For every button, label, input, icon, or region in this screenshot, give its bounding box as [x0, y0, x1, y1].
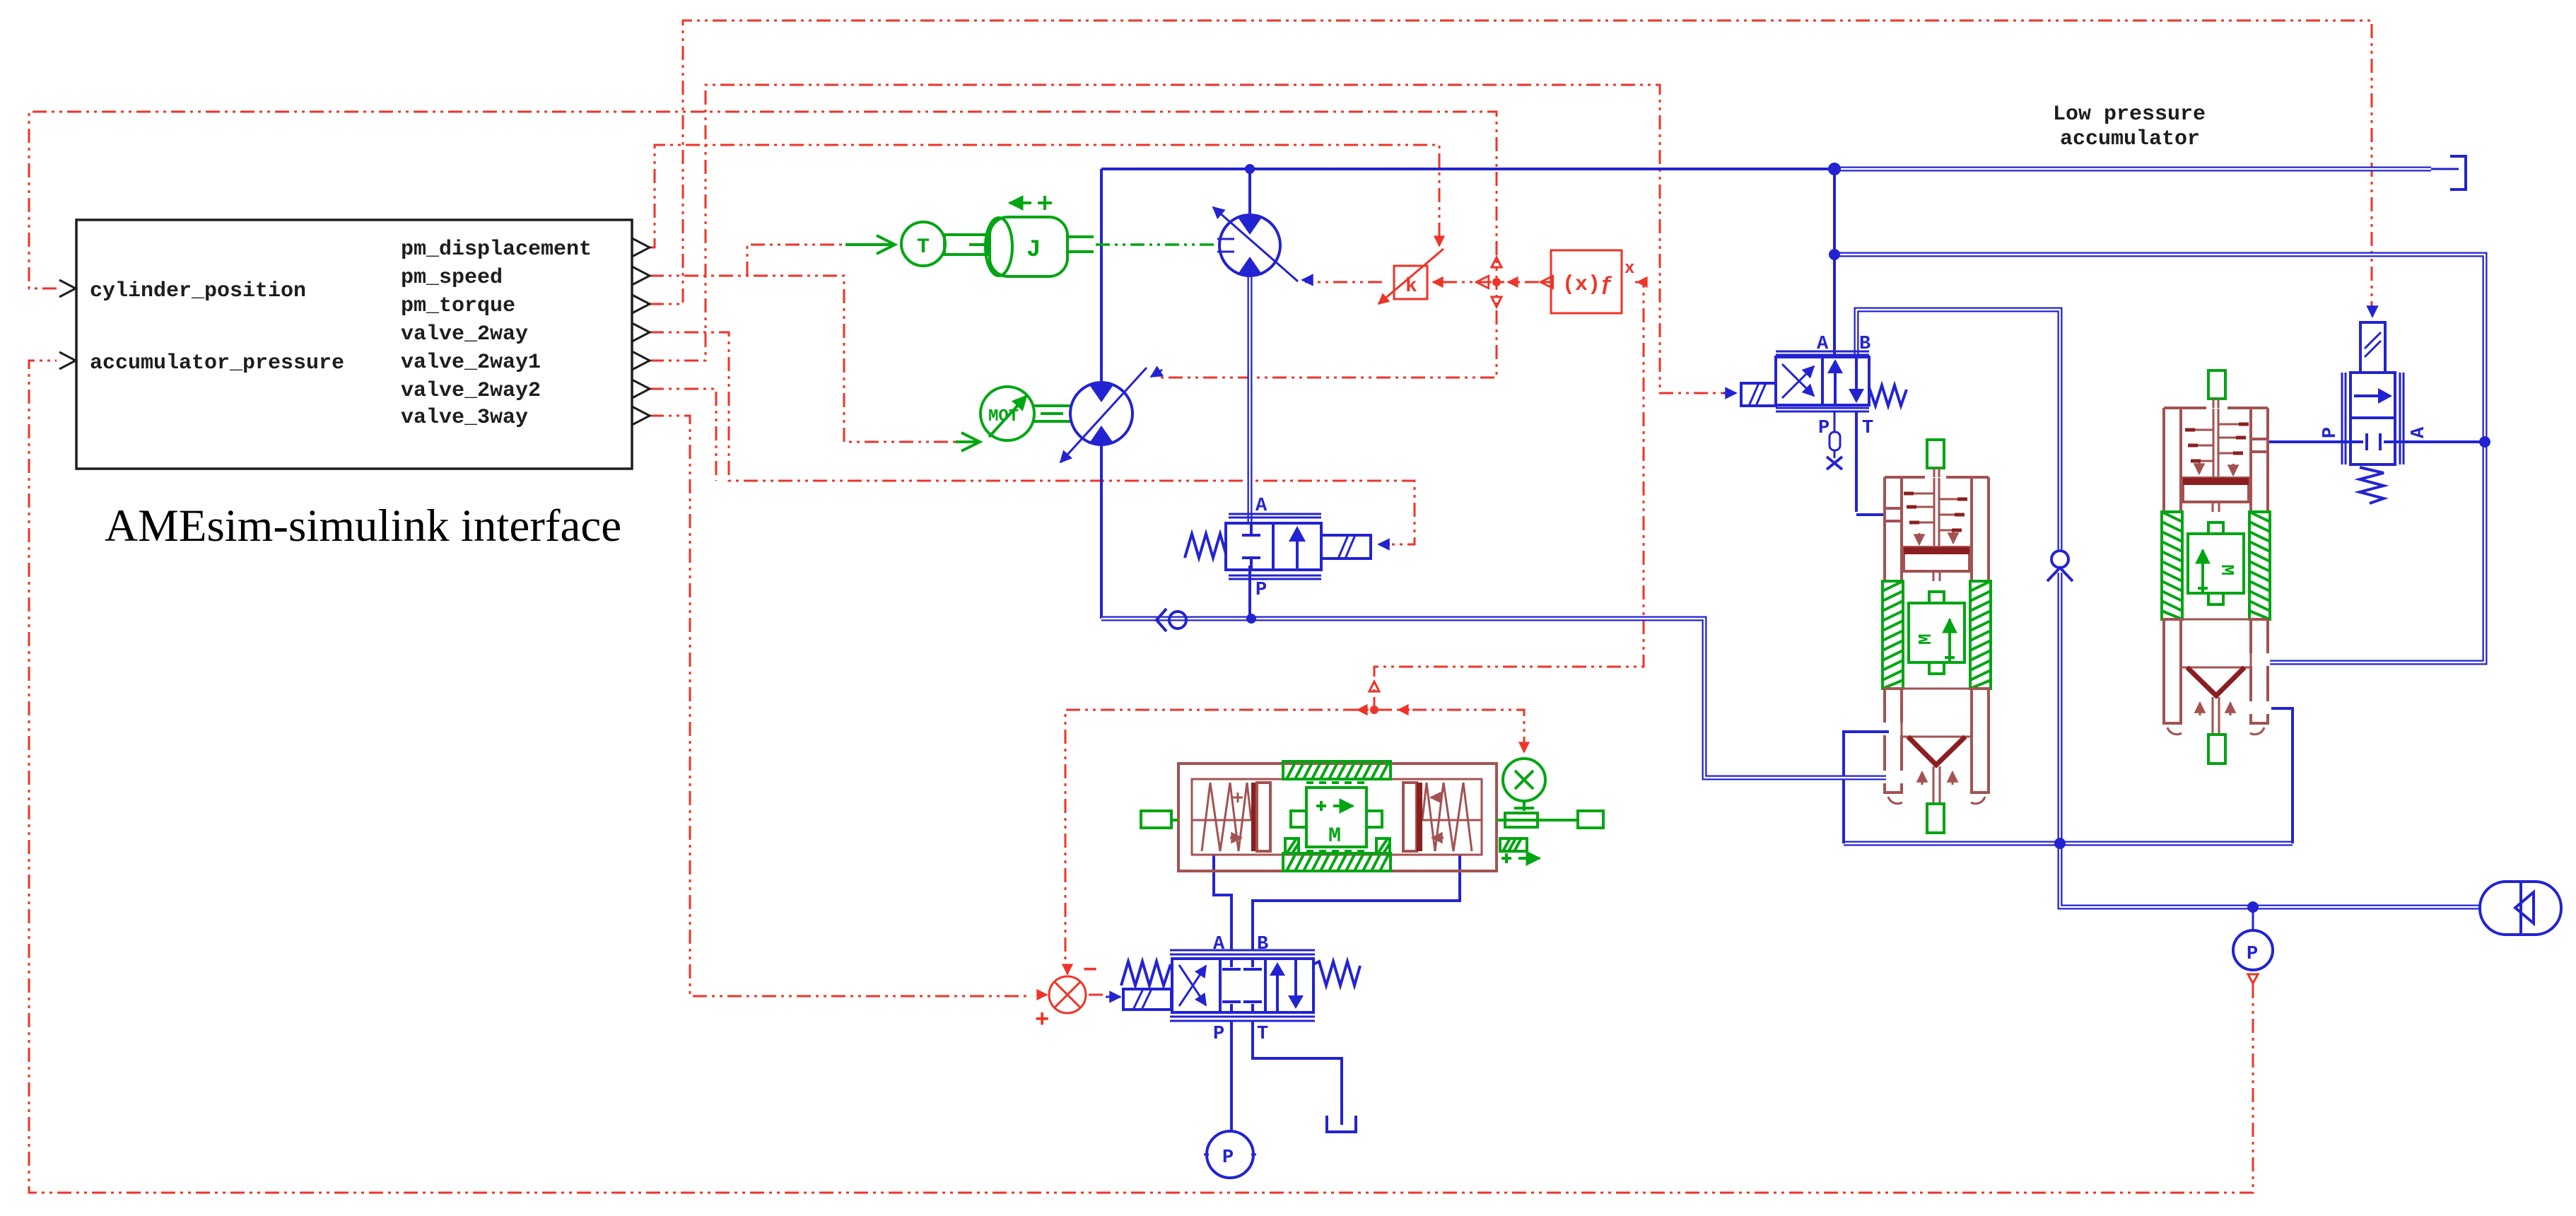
svg-text:valve_2way2: valve_2way2: [401, 379, 541, 403]
svg-text:valve_2way: valve_2way: [401, 322, 528, 346]
svg-text:pm_torque: pm_torque: [401, 294, 515, 318]
svg-text:−: −: [1083, 958, 1097, 985]
svg-text:B: B: [1859, 334, 1870, 355]
svg-text:valve_3way: valve_3way: [401, 406, 528, 430]
svg-text:P: P: [1255, 580, 1267, 601]
svg-text:P: P: [2320, 427, 2341, 438]
svg-text:J: J: [1026, 237, 1041, 264]
svg-text:pm_speed: pm_speed: [401, 266, 503, 290]
svg-text:P: P: [1213, 1024, 1224, 1045]
svg-text:Low pressure: Low pressure: [2053, 103, 2206, 127]
svg-text:A: A: [2408, 426, 2430, 438]
svg-text:AMEsim-simulink interface: AMEsim-simulink interface: [105, 501, 621, 551]
svg-text:P: P: [1222, 1147, 1234, 1169]
svg-text:accumulator_pressure: accumulator_pressure: [90, 351, 344, 375]
svg-text:T: T: [917, 235, 930, 259]
svg-text:P: P: [2247, 944, 2258, 965]
svg-text:P: P: [1818, 418, 1829, 439]
svg-text:A: A: [1255, 496, 1267, 517]
svg-text:B: B: [1257, 934, 1268, 955]
svg-text:A: A: [1817, 334, 1829, 355]
svg-text:T: T: [1257, 1024, 1268, 1045]
svg-text:valve_2way1: valve_2way1: [401, 351, 541, 375]
svg-text:M: M: [1328, 824, 1341, 848]
svg-text:(x)ƒ: (x)ƒ: [1562, 273, 1613, 297]
svg-text:+: +: [1035, 1007, 1049, 1034]
svg-text:x: x: [1624, 259, 1634, 279]
svg-text:cylinder_position: cylinder_position: [90, 279, 306, 303]
svg-text:T: T: [1862, 418, 1873, 439]
svg-text:accumulator: accumulator: [2060, 127, 2200, 151]
svg-text:pm_displacement: pm_displacement: [401, 238, 592, 262]
svg-text:A: A: [1213, 934, 1225, 955]
